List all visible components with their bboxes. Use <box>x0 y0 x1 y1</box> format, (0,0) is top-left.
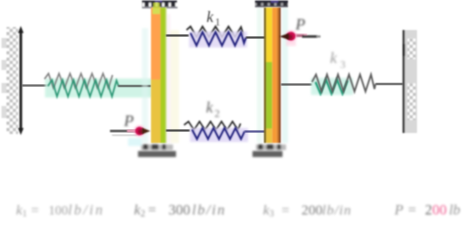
wire: bar2 to spring k3 <box>281 84 312 86</box>
soft halo bands near bars (artifacts) <box>142 8 288 143</box>
svg-text:k2 = 300 lb/: k2 = 300 lb/in <box>134 203 226 221</box>
left wall line with arrowheads <box>18 26 24 135</box>
spring k1 (top, navy) glow band <box>189 32 247 48</box>
svg-text:k: k <box>330 50 338 67</box>
spring k2 (bottom, navy) ghost copy <box>184 122 241 131</box>
spring k3 main gray coil <box>312 75 376 92</box>
bar 2 top support cap <box>255 1 288 8</box>
caption k2 = 300 lb/in <box>134 203 226 221</box>
svg-text:P = 200 lb: P = 200 lb <box>394 203 461 219</box>
wire: top spring to bar2 <box>246 37 265 39</box>
wire: bar1 to top spring <box>166 35 189 37</box>
svg-text:k: k <box>207 9 215 26</box>
svg-text:k3 = 200 lb/: k3 = 200 lb/in <box>263 204 352 221</box>
spring k1 (left, teal) main coil <box>48 80 119 97</box>
wire: wall to left spring <box>22 85 49 87</box>
wire: spring k3 to right wall <box>376 83 404 85</box>
right wall <box>403 30 418 133</box>
wire: bar1 to bottom spring <box>166 130 190 132</box>
wire: left spring to bar 1 <box>118 85 151 87</box>
spring k1 (left, teal) glow band <box>45 79 152 98</box>
bar 1 (orange/gold with green stripe) <box>151 3 167 144</box>
force P arrow (top, pointing left into bar2) <box>279 30 320 46</box>
svg-text:k: k <box>206 100 214 117</box>
spring k1 (left, teal) ghost copy <box>45 74 113 89</box>
spring k3 teal ghost <box>316 80 348 94</box>
bar 2 (yellow/green + orange, dark edges) <box>264 8 281 144</box>
spring k2 (bottom, navy) glow band <box>190 128 248 142</box>
left wall hatched band <box>2 27 19 134</box>
bar 1 top support cap <box>142 1 178 9</box>
svg-text:k1 = 100 lb/: k1 = 100 lb/in <box>16 203 105 221</box>
svg-text:P: P <box>295 17 306 34</box>
svg-text:P: P <box>123 113 134 130</box>
svg-text:3: 3 <box>340 59 346 71</box>
bar 1 bottom support <box>138 144 176 157</box>
caption P = 200 lb <box>394 203 461 219</box>
force P arrow (bottom, pointing right into bar1) <box>110 125 150 146</box>
spring k2 (bottom, navy) main coil <box>192 128 245 139</box>
bar 2 bottom support <box>253 144 287 157</box>
caption k1 = 100 lb/in <box>16 203 105 221</box>
spring k1 (top, navy) ghost copy <box>187 27 244 38</box>
svg-text:2: 2 <box>215 109 220 120</box>
caption k3 = 200 lb/in <box>263 204 352 221</box>
wire: bottom spring to bar2 <box>245 131 266 133</box>
spring k1 (top, navy) main coil <box>191 32 247 46</box>
spring k3 glow band <box>311 78 353 95</box>
